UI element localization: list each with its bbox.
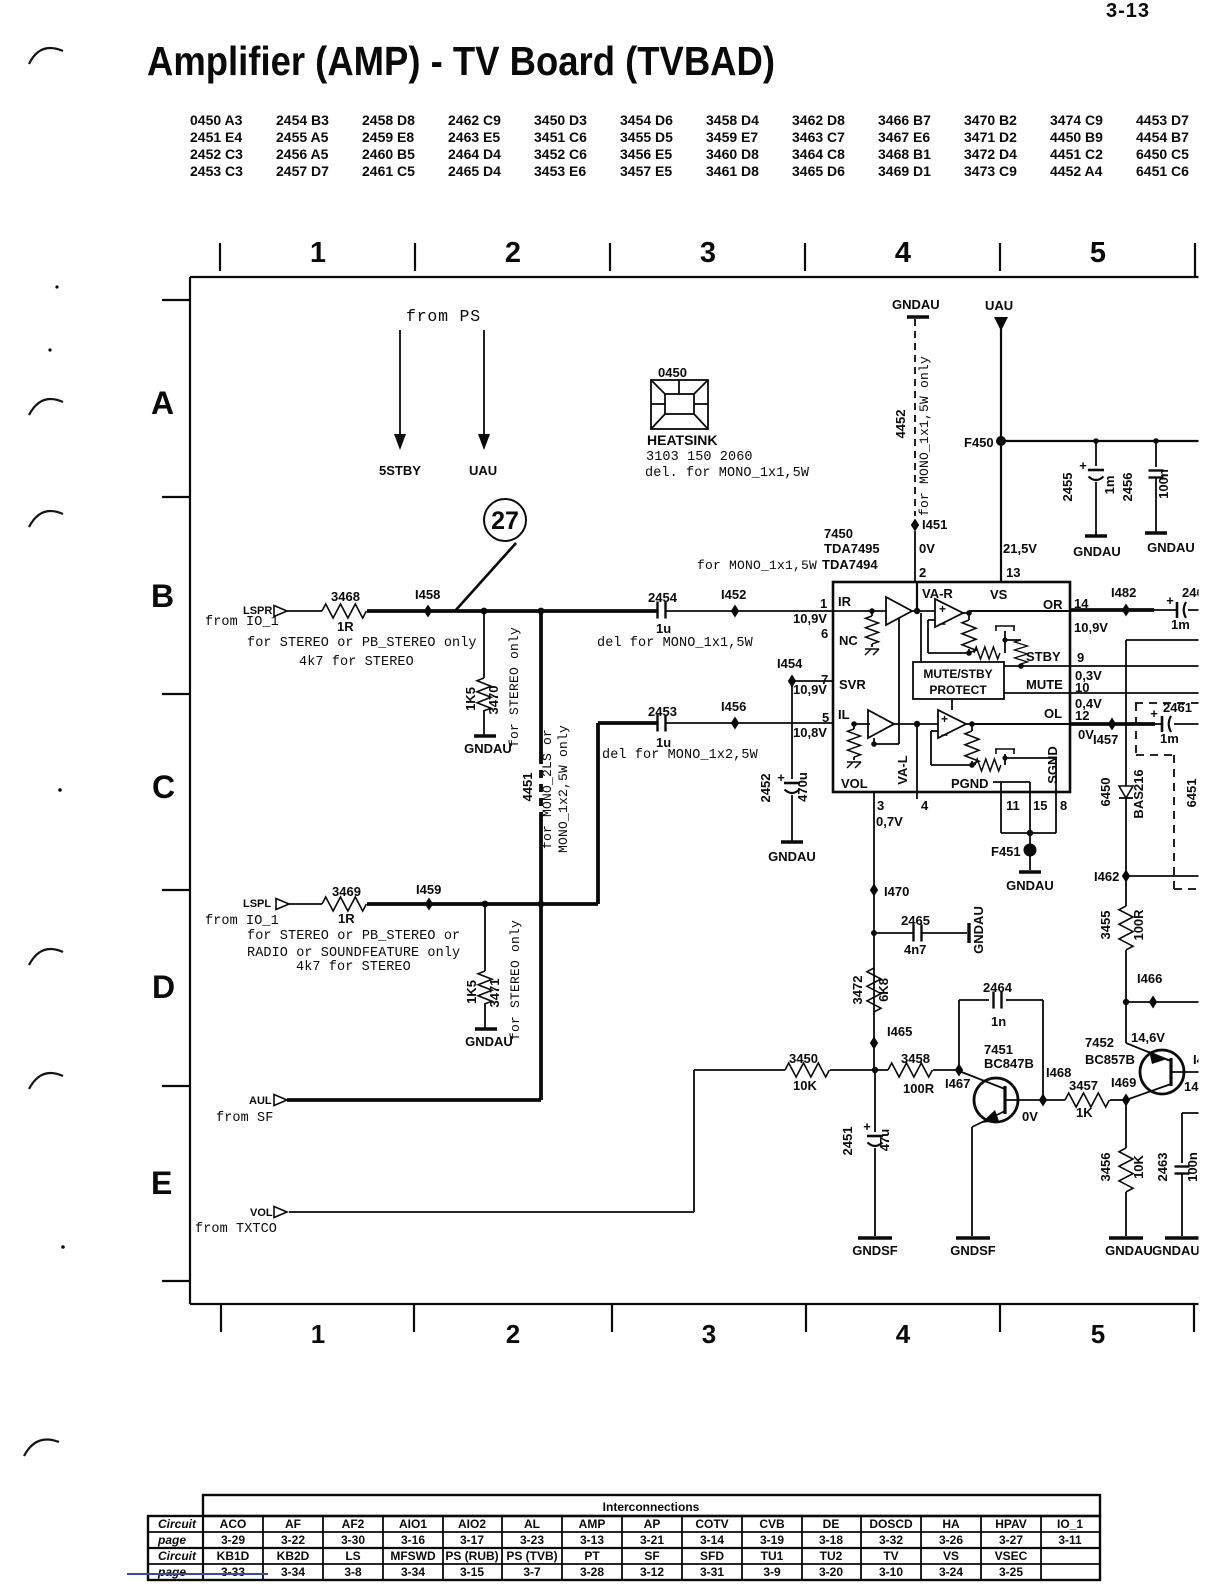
svg-text:10K: 10K xyxy=(1131,1154,1146,1178)
svg-text:3-12: 3-12 xyxy=(640,1565,664,1579)
svg-text:B: B xyxy=(151,578,174,614)
svg-text:RADIO or SOUNDFEATURE only: RADIO or SOUNDFEATURE only xyxy=(247,946,460,961)
svg-text:3460 D8: 3460 D8 xyxy=(706,146,759,162)
svg-text:SVR: SVR xyxy=(839,677,866,692)
svg-text:for STEREO or PB_STEREO only: for STEREO or PB_STEREO only xyxy=(247,636,477,651)
svg-text:0450 A3: 0450 A3 xyxy=(190,112,243,128)
svg-text:PT: PT xyxy=(584,1549,600,1563)
svg-text:KB1D: KB1D xyxy=(217,1549,250,1563)
svg-text:1m: 1m xyxy=(1102,476,1117,495)
svg-text:LSPL: LSPL xyxy=(243,898,271,910)
svg-text:GNDAU: GNDAU xyxy=(1105,1243,1153,1258)
svg-text:3474 C9: 3474 C9 xyxy=(1050,112,1103,128)
svg-text:9: 9 xyxy=(1077,650,1084,665)
svg-text:+: + xyxy=(777,770,785,785)
svg-text:6450: 6450 xyxy=(1098,778,1113,807)
svg-text:AL: AL xyxy=(524,1517,540,1531)
svg-text:3456: 3456 xyxy=(1098,1153,1113,1182)
svg-text:STBY: STBY xyxy=(1026,649,1061,664)
svg-text:from SF: from SF xyxy=(216,1111,273,1126)
svg-text:3458: 3458 xyxy=(901,1051,930,1066)
svg-text:3471 D2: 3471 D2 xyxy=(964,129,1017,145)
svg-text:I482: I482 xyxy=(1111,585,1136,600)
svg-text:F450: F450 xyxy=(964,435,994,450)
svg-text:AUL: AUL xyxy=(249,1095,272,1107)
svg-text:3453 E6: 3453 E6 xyxy=(534,163,586,179)
svg-text:SGND: SGND xyxy=(1045,746,1060,784)
svg-text:4451 C2: 4451 C2 xyxy=(1050,146,1103,162)
svg-text:6: 6 xyxy=(821,626,828,641)
svg-text:3457 E5: 3457 E5 xyxy=(620,163,672,179)
svg-text:27: 27 xyxy=(491,507,519,535)
svg-text:PROTECT: PROTECT xyxy=(929,683,987,697)
svg-text:for STEREO or PB_STEREO or: for STEREO or PB_STEREO or xyxy=(247,929,460,944)
svg-text:2456: 2456 xyxy=(1120,473,1135,502)
svg-text:0V: 0V xyxy=(919,541,935,556)
svg-text:1m: 1m xyxy=(1171,617,1190,632)
svg-text:3458 D4: 3458 D4 xyxy=(706,112,759,128)
svg-text:7451: 7451 xyxy=(984,1042,1013,1057)
svg-text:3-15: 3-15 xyxy=(460,1565,484,1579)
svg-text:NC: NC xyxy=(839,633,858,648)
svg-text:0,7V: 0,7V xyxy=(876,814,903,829)
svg-text:I459: I459 xyxy=(416,882,441,897)
svg-text:GNDSF: GNDSF xyxy=(852,1243,898,1258)
svg-text:4: 4 xyxy=(896,1319,911,1349)
svg-text:3466 B7: 3466 B7 xyxy=(878,112,931,128)
svg-text:for MONO_1x1,5W: for MONO_1x1,5W xyxy=(697,558,817,573)
svg-text:1R: 1R xyxy=(337,619,354,634)
svg-text:3471: 3471 xyxy=(487,979,502,1008)
svg-text:AP: AP xyxy=(644,1517,661,1531)
svg-text:4k7 for STEREO: 4k7 for STEREO xyxy=(296,960,411,975)
svg-text:3-23: 3-23 xyxy=(520,1533,544,1547)
svg-text:2457 D7: 2457 D7 xyxy=(276,163,329,179)
svg-text:3452 C6: 3452 C6 xyxy=(534,146,587,162)
svg-text:2464 D4: 2464 D4 xyxy=(448,146,501,162)
svg-text:11: 11 xyxy=(1006,798,1020,813)
svg-text:del for MONO_1x1,5W: del for MONO_1x1,5W xyxy=(597,636,754,651)
svg-text:3472 D4: 3472 D4 xyxy=(964,146,1017,162)
svg-text:UAU: UAU xyxy=(469,463,497,478)
svg-text:from IO_1: from IO_1 xyxy=(205,914,279,929)
svg-text:14: 14 xyxy=(1184,1079,1199,1094)
svg-text:A: A xyxy=(151,385,174,421)
svg-text:3463 C7: 3463 C7 xyxy=(792,129,845,145)
svg-text:OR: OR xyxy=(1043,597,1063,612)
svg-text:7450: 7450 xyxy=(824,526,853,541)
svg-text:2462 C9: 2462 C9 xyxy=(448,112,501,128)
svg-text:VS: VS xyxy=(990,587,1008,602)
svg-text:+: + xyxy=(939,602,946,616)
svg-text:AF: AF xyxy=(285,1517,301,1531)
svg-text:3: 3 xyxy=(702,1319,716,1349)
svg-text:3-17: 3-17 xyxy=(460,1533,484,1547)
svg-text:I466: I466 xyxy=(1137,971,1162,986)
svg-text:2: 2 xyxy=(919,565,926,580)
svg-text:3-11: 3-11 xyxy=(1058,1533,1082,1547)
svg-text:100n: 100n xyxy=(1156,469,1171,499)
svg-text:+: + xyxy=(1166,593,1174,608)
svg-text:3468: 3468 xyxy=(331,589,360,604)
svg-text:3-31: 3-31 xyxy=(700,1565,724,1579)
svg-text:1R: 1R xyxy=(338,911,355,926)
svg-text:3461 D8: 3461 D8 xyxy=(706,163,759,179)
svg-text:SF: SF xyxy=(644,1549,659,1563)
svg-text:3454 D6: 3454 D6 xyxy=(620,112,673,128)
svg-text:4450 B9: 4450 B9 xyxy=(1050,129,1103,145)
svg-text:3-9: 3-9 xyxy=(763,1565,781,1579)
svg-text:3-24: 3-24 xyxy=(939,1565,963,1579)
svg-text:3-33: 3-33 xyxy=(221,1565,245,1579)
svg-text:3-13: 3-13 xyxy=(1106,0,1150,22)
svg-text:TDA7494: TDA7494 xyxy=(822,557,878,572)
svg-text:2453 C3: 2453 C3 xyxy=(190,163,243,179)
svg-text:3-19: 3-19 xyxy=(760,1533,784,1547)
svg-text:4452: 4452 xyxy=(893,410,908,439)
svg-text:3-30: 3-30 xyxy=(341,1533,365,1547)
svg-text:47u: 47u xyxy=(877,1129,892,1151)
svg-text:from PS: from PS xyxy=(406,307,481,326)
svg-text:10K: 10K xyxy=(793,1078,817,1093)
svg-text:3465 D6: 3465 D6 xyxy=(792,163,845,179)
svg-text:3-34: 3-34 xyxy=(281,1565,305,1579)
svg-text:GNDSF: GNDSF xyxy=(950,1243,996,1258)
svg-text:+: + xyxy=(1150,706,1158,721)
svg-text:3470: 3470 xyxy=(486,686,501,715)
svg-text:2454: 2454 xyxy=(648,590,678,605)
svg-text:6451 C6: 6451 C6 xyxy=(1136,163,1189,179)
svg-text:DOSCD: DOSCD xyxy=(869,1517,913,1531)
svg-text:1K5: 1K5 xyxy=(463,687,478,711)
svg-text:Circuit: Circuit xyxy=(158,1517,197,1531)
svg-text:3-8: 3-8 xyxy=(344,1565,362,1579)
svg-text:PS (TVB): PS (TVB) xyxy=(506,1549,557,1563)
svg-text:3-32: 3-32 xyxy=(879,1533,903,1547)
svg-text:2463: 2463 xyxy=(1155,1153,1170,1182)
svg-text:100R: 100R xyxy=(1131,909,1146,941)
svg-text:VSEC: VSEC xyxy=(995,1549,1028,1563)
svg-text:UAU: UAU xyxy=(985,298,1013,313)
svg-text:2456 A5: 2456 A5 xyxy=(276,146,329,162)
svg-text:3469: 3469 xyxy=(332,884,361,899)
svg-text:3451 C6: 3451 C6 xyxy=(534,129,587,145)
svg-text:I467: I467 xyxy=(945,1076,970,1091)
svg-text:3-29: 3-29 xyxy=(221,1533,245,1547)
svg-text:7452: 7452 xyxy=(1085,1035,1114,1050)
svg-text:BC847B: BC847B xyxy=(984,1056,1034,1071)
svg-text:ACO: ACO xyxy=(220,1517,247,1531)
svg-text:COTV: COTV xyxy=(695,1517,728,1531)
svg-text:C: C xyxy=(152,769,175,805)
svg-text:−: − xyxy=(941,728,948,742)
svg-text:+: + xyxy=(941,712,948,726)
svg-text:3450 D3: 3450 D3 xyxy=(534,112,587,128)
svg-text:for STEREO only: for STEREO only xyxy=(507,627,522,747)
svg-text:VA-L: VA-L xyxy=(895,755,910,784)
svg-text:2451 E4: 2451 E4 xyxy=(190,129,242,145)
svg-text:3: 3 xyxy=(877,798,884,813)
svg-text:3457: 3457 xyxy=(1069,1078,1098,1093)
svg-text:GNDAU: GNDAU xyxy=(768,849,816,864)
svg-text:1K: 1K xyxy=(1076,1105,1093,1120)
svg-text:12: 12 xyxy=(1075,708,1089,723)
svg-text:D: D xyxy=(152,969,175,1005)
svg-text:3472: 3472 xyxy=(850,976,865,1005)
svg-text:2458 D8: 2458 D8 xyxy=(362,112,415,128)
svg-text:2: 2 xyxy=(506,1319,520,1349)
svg-text:3469 D1: 3469 D1 xyxy=(878,163,931,179)
svg-text:I452: I452 xyxy=(721,587,746,602)
svg-text:21,5V: 21,5V xyxy=(1003,541,1037,556)
svg-text:Circuit: Circuit xyxy=(158,1549,197,1563)
svg-text:IO_1: IO_1 xyxy=(1057,1517,1083,1531)
svg-text:Interconnections: Interconnections xyxy=(603,1500,700,1514)
svg-text:SFD: SFD xyxy=(700,1549,724,1563)
svg-text:5: 5 xyxy=(1090,237,1106,269)
svg-text:2455: 2455 xyxy=(1060,473,1075,502)
svg-text:AMP: AMP xyxy=(579,1517,606,1531)
svg-text:6450 C5: 6450 C5 xyxy=(1136,146,1189,162)
svg-text:100R: 100R xyxy=(903,1081,935,1096)
svg-text:GNDAU: GNDAU xyxy=(971,906,986,954)
svg-text:4: 4 xyxy=(921,798,929,813)
svg-text:1: 1 xyxy=(310,237,326,269)
svg-text:del. for MONO_1x1,5W: del. for MONO_1x1,5W xyxy=(645,466,810,481)
svg-text:3-13: 3-13 xyxy=(580,1533,604,1547)
svg-text:3-20: 3-20 xyxy=(819,1565,843,1579)
svg-text:2452 C3: 2452 C3 xyxy=(190,146,243,162)
svg-text:3455 D5: 3455 D5 xyxy=(620,129,673,145)
svg-text:GNDAU: GNDAU xyxy=(1073,544,1121,559)
svg-text:VOL: VOL xyxy=(250,1207,273,1219)
svg-text:3-16: 3-16 xyxy=(401,1533,425,1547)
svg-text:0V: 0V xyxy=(1022,1109,1038,1124)
svg-text:10,9V: 10,9V xyxy=(1074,620,1108,635)
svg-text:3-22: 3-22 xyxy=(281,1533,305,1547)
svg-text:3-28: 3-28 xyxy=(580,1565,604,1579)
svg-text:4: 4 xyxy=(895,237,911,269)
svg-text:TU2: TU2 xyxy=(820,1549,843,1563)
svg-text:HA: HA xyxy=(942,1517,960,1531)
svg-text:8: 8 xyxy=(1060,798,1067,813)
svg-text:10,9V: 10,9V xyxy=(793,611,827,626)
svg-text:2452: 2452 xyxy=(758,774,773,803)
svg-text:HEATSINK: HEATSINK xyxy=(647,432,718,448)
svg-text:I458: I458 xyxy=(415,587,440,602)
svg-text:1K5: 1K5 xyxy=(464,980,479,1004)
svg-text:IL: IL xyxy=(838,707,850,722)
svg-text:del for MONO_1x2,5W: del for MONO_1x2,5W xyxy=(602,748,759,763)
svg-text:for MONO_2LS or: for MONO_2LS or xyxy=(540,729,555,849)
svg-text:TU1: TU1 xyxy=(761,1549,784,1563)
svg-text:for STEREO only: for STEREO only xyxy=(508,920,523,1040)
svg-text:4451: 4451 xyxy=(520,773,535,802)
svg-text:3456 E5: 3456 E5 xyxy=(620,146,672,162)
svg-text:2460 B5: 2460 B5 xyxy=(362,146,415,162)
svg-text:1m: 1m xyxy=(1160,731,1179,746)
svg-text:GNDAU: GNDAU xyxy=(1147,540,1195,555)
svg-text:E: E xyxy=(151,1165,172,1201)
svg-text:page: page xyxy=(157,1533,186,1547)
svg-text:3103 150 2060: 3103 150 2060 xyxy=(646,450,753,465)
svg-text:BC857B: BC857B xyxy=(1085,1052,1135,1067)
svg-text:GNDAU: GNDAU xyxy=(1152,1243,1200,1258)
svg-text:−: − xyxy=(939,617,946,631)
svg-text:IR: IR xyxy=(838,594,852,609)
svg-text:I462: I462 xyxy=(1094,869,1119,884)
svg-text:3: 3 xyxy=(700,237,716,269)
svg-text:2465: 2465 xyxy=(901,913,930,928)
svg-text:page: page xyxy=(157,1565,186,1579)
svg-text:2461 C5: 2461 C5 xyxy=(362,163,415,179)
svg-text:3468 B1: 3468 B1 xyxy=(878,146,931,162)
svg-text:10,9V: 10,9V xyxy=(793,682,827,697)
svg-text:I468: I468 xyxy=(1046,1065,1071,1080)
svg-text:MUTE: MUTE xyxy=(1026,677,1063,692)
svg-text:GNDAU: GNDAU xyxy=(464,741,512,756)
svg-text:VS: VS xyxy=(943,1549,959,1563)
svg-text:1u: 1u xyxy=(656,621,671,636)
svg-text:4452 A4: 4452 A4 xyxy=(1050,163,1103,179)
svg-text:GNDAU: GNDAU xyxy=(465,1034,513,1049)
svg-text:I469: I469 xyxy=(1111,1075,1136,1090)
svg-text:3-25: 3-25 xyxy=(999,1565,1023,1579)
svg-text:GNDAU: GNDAU xyxy=(892,297,940,312)
svg-text:OL: OL xyxy=(1044,706,1062,721)
svg-text:13: 13 xyxy=(1006,565,1020,580)
svg-text:I456: I456 xyxy=(721,699,746,714)
svg-text:10,8V: 10,8V xyxy=(793,725,827,740)
svg-text:100n: 100n xyxy=(1185,1152,1200,1182)
svg-text:0450: 0450 xyxy=(658,365,687,380)
svg-text:470u: 470u xyxy=(795,772,810,802)
svg-text:2451: 2451 xyxy=(840,1127,855,1156)
svg-text:I451: I451 xyxy=(922,517,947,532)
svg-text:TV: TV xyxy=(883,1549,898,1563)
svg-text:+: + xyxy=(863,1119,871,1134)
svg-text:I470: I470 xyxy=(884,884,909,899)
svg-text:DE: DE xyxy=(823,1517,840,1531)
svg-text:4n7: 4n7 xyxy=(904,942,926,957)
svg-text:MFSWD: MFSWD xyxy=(390,1549,436,1563)
svg-text:3459 E7: 3459 E7 xyxy=(706,129,758,145)
svg-text:2453: 2453 xyxy=(648,704,677,719)
svg-text:3467 E6: 3467 E6 xyxy=(878,129,930,145)
svg-text:PS (RUB): PS (RUB) xyxy=(445,1549,498,1563)
svg-text:TDA7495: TDA7495 xyxy=(824,541,880,556)
svg-text:2463 E5: 2463 E5 xyxy=(448,129,500,145)
svg-text:6K8: 6K8 xyxy=(876,978,891,1002)
svg-text:5STBY: 5STBY xyxy=(379,463,421,478)
svg-text:6451: 6451 xyxy=(1184,779,1199,808)
svg-text:VOL: VOL xyxy=(841,776,868,791)
svg-text:1n: 1n xyxy=(991,1014,1006,1029)
svg-text:2465 D4: 2465 D4 xyxy=(448,163,501,179)
svg-text:14,6V: 14,6V xyxy=(1131,1030,1165,1045)
svg-text:BAS216: BAS216 xyxy=(1131,769,1146,818)
svg-text:AIO2: AIO2 xyxy=(458,1517,486,1531)
svg-text:from TXTCO: from TXTCO xyxy=(195,1222,277,1237)
svg-text:2: 2 xyxy=(505,237,521,269)
svg-text:MONO_1x2,5W only: MONO_1x2,5W only xyxy=(556,725,571,853)
svg-text:KB2D: KB2D xyxy=(277,1549,310,1563)
svg-text:I454: I454 xyxy=(777,656,803,671)
svg-text:1: 1 xyxy=(311,1319,325,1349)
svg-text:0V: 0V xyxy=(1078,727,1094,742)
svg-text:MUTE/STBY: MUTE/STBY xyxy=(923,667,992,681)
svg-text:3-7: 3-7 xyxy=(523,1565,541,1579)
svg-text:3473 C9: 3473 C9 xyxy=(964,163,1017,179)
svg-text:1: 1 xyxy=(820,596,827,611)
svg-text:3-27: 3-27 xyxy=(999,1533,1023,1547)
svg-text:4453 D7: 4453 D7 xyxy=(1136,112,1189,128)
svg-text:4454 B7: 4454 B7 xyxy=(1136,129,1189,145)
svg-text:3464 C8: 3464 C8 xyxy=(792,146,845,162)
svg-text:3470 B2: 3470 B2 xyxy=(964,112,1017,128)
svg-text:for MONO_1x1,5W only: for MONO_1x1,5W only xyxy=(917,356,932,516)
svg-text:3-26: 3-26 xyxy=(939,1533,963,1547)
svg-text:Amplifier (AMP) - TV Board (TV: Amplifier (AMP) - TV Board (TVBAD) xyxy=(147,38,775,84)
svg-text:LS: LS xyxy=(345,1549,360,1563)
svg-text:AIO1: AIO1 xyxy=(399,1517,427,1531)
svg-text:+: + xyxy=(1079,458,1087,473)
svg-text:I465: I465 xyxy=(887,1024,912,1039)
svg-text:I457: I457 xyxy=(1093,732,1118,747)
svg-text:3-34: 3-34 xyxy=(401,1565,425,1579)
svg-text:3-14: 3-14 xyxy=(700,1533,724,1547)
svg-text:AF2: AF2 xyxy=(342,1517,365,1531)
svg-text:2464: 2464 xyxy=(983,980,1013,995)
svg-text:VA-R: VA-R xyxy=(922,586,953,601)
svg-text:2455 A5: 2455 A5 xyxy=(276,129,329,145)
svg-text:3462 D8: 3462 D8 xyxy=(792,112,845,128)
svg-text:2454 B3: 2454 B3 xyxy=(276,112,329,128)
svg-text:15: 15 xyxy=(1033,798,1047,813)
svg-text:3-21: 3-21 xyxy=(640,1533,664,1547)
svg-text:3450: 3450 xyxy=(789,1051,818,1066)
svg-text:5: 5 xyxy=(1091,1319,1105,1349)
svg-text:2459 E8: 2459 E8 xyxy=(362,129,414,145)
svg-text:PGND: PGND xyxy=(951,776,989,791)
svg-text:F451: F451 xyxy=(991,844,1021,859)
svg-text:HPAV: HPAV xyxy=(995,1517,1027,1531)
svg-text:from IO_1: from IO_1 xyxy=(205,615,279,630)
svg-text:3-18: 3-18 xyxy=(819,1533,843,1547)
svg-text:CVB: CVB xyxy=(759,1517,785,1531)
svg-text:4k7 for STEREO: 4k7 for STEREO xyxy=(299,655,414,670)
svg-text:3455: 3455 xyxy=(1098,911,1113,940)
svg-text:GNDAU: GNDAU xyxy=(1006,878,1054,893)
svg-text:3-10: 3-10 xyxy=(879,1565,903,1579)
